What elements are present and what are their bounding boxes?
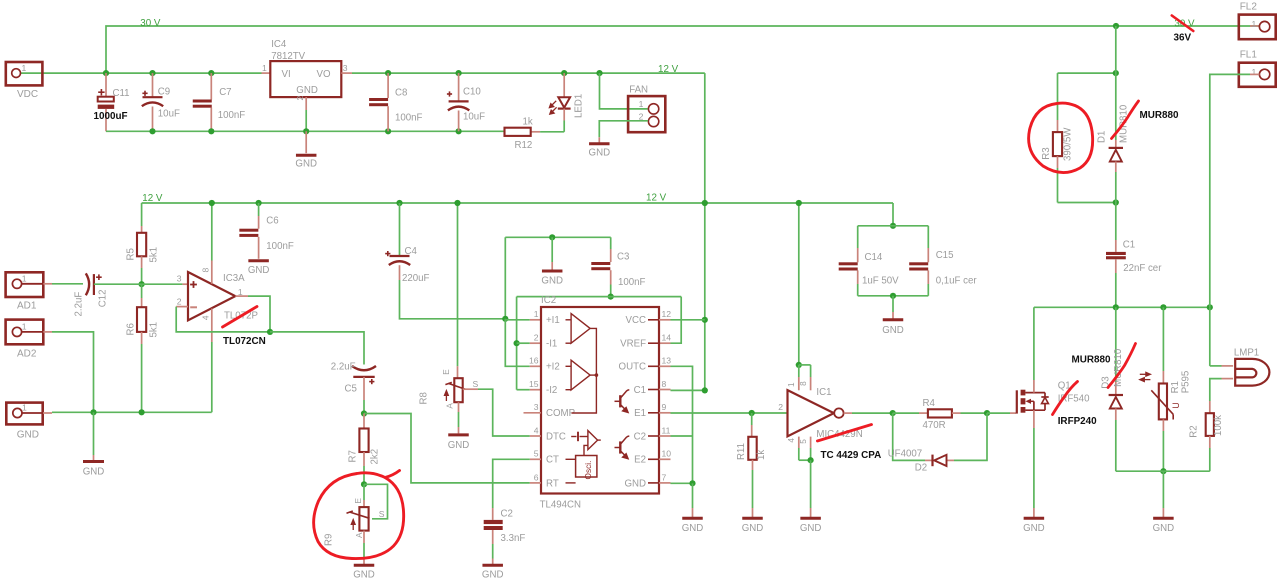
ground symbol pin7 <box>692 483 694 508</box>
connector GND (bottom left) <box>6 403 42 425</box>
IC2 internal oscillator box <box>576 456 597 478</box>
junction rail at C1/D3 <box>1113 304 1119 310</box>
svg-text:S: S <box>379 509 385 519</box>
IC1 triangle <box>788 390 834 436</box>
svg-text:FL2: FL2 <box>1240 2 1258 13</box>
IC2 internal comparator 1 <box>571 314 590 344</box>
svg-text:VO: VO <box>317 69 331 80</box>
svg-text:2.2uF: 2.2uF <box>331 362 356 373</box>
ground symbol R11 <box>752 508 754 517</box>
junction AD2/ground rail <box>90 409 96 415</box>
capacitor C3 100nF <box>610 237 612 249</box>
wire AD1 to C12 <box>22 283 44 285</box>
wire Q1 drain up to output rail <box>1033 380 1035 393</box>
ground symbol C6 <box>248 259 269 262</box>
svg-text:3.3nF: 3.3nF <box>501 533 526 544</box>
svg-text:D2: D2 <box>915 462 927 473</box>
svg-text:R11: R11 <box>736 443 747 460</box>
IC2 internal transistor 1 <box>615 390 630 413</box>
svg-text:GND: GND <box>17 429 39 440</box>
wire FL1 to output rail <box>1250 73 1259 75</box>
svg-text:8: 8 <box>799 381 808 386</box>
annotation strike MUR810 D3 <box>1108 344 1136 388</box>
svg-text:OUTC: OUTC <box>619 362 646 373</box>
pin 4 of IC3A (power) <box>211 309 213 343</box>
junction GND stem above IC2 <box>549 234 555 240</box>
connector FAN <box>628 96 665 132</box>
svg-text:E: E <box>442 369 451 375</box>
junction R4 left / D2 <box>890 410 896 416</box>
svg-text:3: 3 <box>534 402 539 412</box>
svg-text:GND: GND <box>682 523 704 534</box>
svg-text:3: 3 <box>177 274 182 284</box>
diode D1 MUR880 <box>1115 140 1117 148</box>
wire C4 bottom to +I1 node <box>400 280 506 319</box>
junction IC1 ground bridge <box>808 457 814 463</box>
svg-text:GND: GND <box>482 570 504 581</box>
junction R8 top (12V rail) <box>454 200 460 206</box>
svg-text:IC1: IC1 <box>816 387 831 398</box>
svg-text:C2: C2 <box>634 431 646 442</box>
junction 12V rail at pin8 <box>209 200 215 206</box>
wire R3/D1 top link <box>1058 72 1116 74</box>
wire AD2 down to ground rail <box>22 331 44 333</box>
pin 3 COMP stub <box>524 412 542 414</box>
capacitor C1 22nF cer <box>1115 203 1117 241</box>
svg-text:1k: 1k <box>523 117 533 128</box>
junction 12V rail at IC1 riser <box>796 200 802 206</box>
svg-text:1: 1 <box>22 274 27 284</box>
svg-text:C14: C14 <box>865 252 883 263</box>
svg-text:2k2: 2k2 <box>370 449 381 465</box>
svg-text:AD1: AD1 <box>17 301 37 312</box>
svg-text:1: 1 <box>787 382 796 387</box>
svg-text:E: E <box>354 498 363 504</box>
svg-text:LED1: LED1 <box>574 94 585 118</box>
svg-text:DTC: DTC <box>546 431 566 442</box>
wire bottom ground rail (right) <box>1116 470 1210 472</box>
junction C9 top <box>149 70 155 76</box>
junction C7 top <box>208 70 214 76</box>
svg-text:E1: E1 <box>634 408 646 419</box>
svg-text:4: 4 <box>787 438 796 443</box>
svg-text:1000uF: 1000uF <box>94 111 128 122</box>
svg-text:GND: GND <box>624 478 646 489</box>
lamp LMP1 <box>1210 365 1222 367</box>
svg-text:30 V: 30 V <box>140 18 161 29</box>
junction R1 bottom <box>1160 468 1166 474</box>
svg-text:R4: R4 <box>923 398 936 409</box>
svg-text:MUR880: MUR880 <box>1072 355 1111 366</box>
svg-text:C4: C4 <box>405 246 418 257</box>
capacitor C15 0.1uF cer <box>927 226 929 248</box>
svg-text:2: 2 <box>295 96 305 101</box>
svg-text:U: U <box>1171 402 1181 409</box>
wire 12V mid rail <box>142 202 893 204</box>
svg-text:1: 1 <box>534 309 539 319</box>
wire output to feedback node <box>235 295 248 297</box>
junction D1 top <box>1113 70 1119 76</box>
resistor R7 2k2 <box>363 414 365 429</box>
svg-text:+I1: +I1 <box>546 315 560 326</box>
svg-text:1: 1 <box>22 321 27 331</box>
wire IC1 pins 1/8 bridge <box>799 364 811 366</box>
wire junction to RT pin of IC2 <box>364 414 530 483</box>
ground symbol R8 <box>448 433 469 436</box>
pin 2 IC4 GND stub <box>305 97 307 110</box>
wire R8 bottom to ground <box>458 402 460 412</box>
svg-text:5k1: 5k1 <box>149 247 160 263</box>
connector FL2 <box>1250 25 1259 27</box>
capacitor C11 <box>105 73 107 97</box>
svg-text:1: 1 <box>1252 67 1257 77</box>
svg-text:FL1: FL1 <box>1240 50 1258 61</box>
svg-text:GND: GND <box>353 570 375 581</box>
annotation circle around R3 <box>1029 103 1093 172</box>
svg-text:GND: GND <box>541 276 563 287</box>
svg-text:MUR880: MUR880 <box>1140 110 1179 121</box>
svg-text:C6: C6 <box>266 215 278 226</box>
svg-text:2: 2 <box>778 402 783 412</box>
svg-text:R2: R2 <box>1189 425 1200 437</box>
transistor Q1 MOSFET <box>1017 390 1049 414</box>
ground symbol C14/C15 <box>892 296 894 312</box>
connector VDC <box>6 62 43 85</box>
wire C14/C15 box bottom <box>858 295 929 297</box>
wire IC1 output to R4 <box>844 412 852 414</box>
svg-text:2.2uF: 2.2uF <box>74 292 85 317</box>
resistor R4 470R <box>893 412 919 414</box>
svg-text:GND: GND <box>1153 523 1175 534</box>
svg-text:1k: 1k <box>756 450 767 460</box>
junction R6 bottom <box>139 409 145 415</box>
svg-text:9: 9 <box>662 402 667 412</box>
wire GND pin 7 <box>659 482 671 484</box>
resistor R12 1k <box>531 131 541 133</box>
wire VREF net <box>517 296 682 298</box>
wire GND bottom rail of input stage <box>106 130 505 132</box>
svg-text:5k1: 5k1 <box>149 322 160 338</box>
junction 30V rail / D1 branch <box>1113 23 1119 29</box>
annotation strike MIC4429N <box>817 425 871 442</box>
svg-text:12: 12 <box>662 309 672 319</box>
wire C1 pin 8 <box>659 389 671 391</box>
svg-text:12 V: 12 V <box>658 64 679 75</box>
pin 8 of IC3A (power) <box>211 203 213 261</box>
svg-text:10uF: 10uF <box>158 109 180 120</box>
svg-text:100nF: 100nF <box>395 113 423 124</box>
ground symbol IC1 <box>810 460 812 508</box>
pin 10 E2 stub <box>659 458 671 460</box>
ground symbol above IC2 <box>551 237 553 262</box>
svg-text:1: 1 <box>22 403 27 413</box>
wire -I1 pin 2 <box>517 342 530 344</box>
svg-text:GND: GND <box>296 85 318 96</box>
R1 adjust arrows <box>1140 372 1151 381</box>
resistor R2 100k <box>1209 401 1211 413</box>
svg-text:AD2: AD2 <box>17 348 37 359</box>
svg-text:LMP1: LMP1 <box>1234 348 1259 359</box>
svg-text:R7: R7 <box>348 450 359 462</box>
junction C6 top <box>256 200 262 206</box>
wire C14/C15 box top <box>892 203 894 226</box>
wire 30V rail <box>106 26 1259 73</box>
LED LED1 <box>561 70 567 76</box>
svg-text:100k: 100k <box>1213 415 1224 436</box>
wire 30V down to D1 <box>1115 26 1117 140</box>
wire ground rail <box>22 412 43 414</box>
wire VDC to input node <box>21 72 262 74</box>
svg-text:36V: 36V <box>1174 32 1192 43</box>
capacitor C9 <box>152 73 154 97</box>
wire +I1 node down to +I2 pin 16 <box>505 319 530 367</box>
wire FAN pin 2 to ground <box>599 121 648 138</box>
svg-text:VCC: VCC <box>626 315 646 326</box>
trimmer R9 <box>363 484 365 500</box>
junction FAN branch <box>596 70 602 76</box>
svg-text:4: 4 <box>201 315 211 320</box>
annotation strike 30V <box>1172 16 1194 32</box>
capacitor C12 2.2uF <box>86 273 89 295</box>
connector AD2 <box>6 320 44 345</box>
svg-text:RT: RT <box>546 478 559 489</box>
junction riser at VCC <box>702 317 708 323</box>
svg-text:E2: E2 <box>634 455 646 466</box>
junction D1 bottom <box>1113 199 1119 205</box>
svg-text:C10: C10 <box>463 87 481 98</box>
junction C8 top <box>385 70 391 76</box>
svg-text:11: 11 <box>662 425 671 435</box>
wire C2 pin 11 to GND net <box>659 435 671 437</box>
op-amp IC3A <box>188 272 235 320</box>
svg-text:A: A <box>355 532 364 538</box>
svg-text:8: 8 <box>662 379 667 389</box>
svg-text:1: 1 <box>639 99 644 109</box>
junction +I1 node <box>502 316 508 322</box>
svg-text:7812TV: 7812TV <box>271 51 305 62</box>
svg-text:Osci.: Osci. <box>583 461 593 480</box>
wire R8 wiper to DTC <box>463 388 478 390</box>
svg-text:R12: R12 <box>515 140 533 151</box>
svg-text:R9: R9 <box>324 534 335 546</box>
wire IC1 pins 4/5 bridge to ground <box>798 437 800 448</box>
svg-text:8: 8 <box>201 268 211 273</box>
svg-text:10uF: 10uF <box>463 112 485 123</box>
svg-text:GND: GND <box>295 159 317 170</box>
capacitor C8 <box>387 73 389 98</box>
svg-text:12 V: 12 V <box>142 193 163 204</box>
capacitor C2 3.3nF <box>492 508 494 520</box>
wire C12 to +input junction <box>94 283 142 285</box>
wire FAN pin 1 <box>600 73 648 109</box>
resistor R3 390/5W <box>1057 73 1059 120</box>
junction C4 top <box>396 200 402 206</box>
svg-text:COMP: COMP <box>546 408 575 419</box>
svg-text:C15: C15 <box>936 250 954 261</box>
IC2 internal comparator output wire <box>572 328 597 413</box>
svg-text:15: 15 <box>529 379 539 389</box>
wire OUTC pin 13 down to GND net <box>659 365 671 367</box>
svg-text:GND: GND <box>1023 523 1045 534</box>
svg-text:VI: VI <box>282 69 291 80</box>
wire GND rail above IC2 <box>505 236 610 238</box>
wire output rail <box>1034 306 1210 308</box>
IC2 internal comparator 2 <box>571 360 590 390</box>
connector FL1 <box>1239 63 1276 87</box>
svg-text:100nF: 100nF <box>266 241 294 252</box>
wire 12V riser to VCC and C1 <box>704 73 706 390</box>
svg-text:IC4: IC4 <box>271 39 287 50</box>
resistor R5 5k1 <box>137 233 146 256</box>
svg-text:C1: C1 <box>634 385 646 396</box>
svg-text:16: 16 <box>529 356 539 366</box>
svg-text:C2: C2 <box>501 509 513 520</box>
wire ground rail corner to opamp pin4 <box>210 411 213 413</box>
wire Q1 source to ground <box>1033 410 1035 428</box>
ground symbol C2 <box>492 559 494 565</box>
capacitor C4 220uF <box>399 203 401 256</box>
junction riser at pin8 <box>702 387 708 393</box>
wire 12V from regulator <box>341 72 352 74</box>
svg-text:D1: D1 <box>1097 131 1108 143</box>
junction rail at lamp column <box>1207 304 1213 310</box>
minus symbol <box>190 306 197 308</box>
IC2 internal DTC symbol <box>577 432 579 442</box>
junction input node C11 <box>103 70 109 76</box>
svg-text:100nF: 100nF <box>218 110 246 121</box>
svg-text:12 V: 12 V <box>646 193 667 204</box>
ground symbol IC4 <box>305 131 307 153</box>
junction IC1 power bridge <box>796 362 802 368</box>
junction C11 bottom <box>149 128 155 134</box>
svg-text:UF4007: UF4007 <box>888 448 922 459</box>
svg-text:C11: C11 <box>113 88 130 99</box>
junction feedback node <box>267 329 273 335</box>
svg-text:IC3A: IC3A <box>223 273 245 284</box>
junction C10 top <box>456 70 462 76</box>
svg-text:5: 5 <box>534 449 539 459</box>
svg-text:14: 14 <box>662 333 672 343</box>
svg-text:C8: C8 <box>395 88 407 99</box>
wire lamp to R2 <box>1210 379 1222 401</box>
pin 4 DTC stub <box>530 435 541 437</box>
junction IC4 GND <box>303 128 309 134</box>
svg-text:2: 2 <box>534 333 539 343</box>
junction C7 bottom <box>208 128 214 134</box>
svg-text:6: 6 <box>534 472 539 482</box>
svg-text:4: 4 <box>534 425 539 435</box>
svg-text:C9: C9 <box>158 87 170 98</box>
resistor R11 1k <box>751 413 753 425</box>
svg-text:R8: R8 <box>419 392 430 404</box>
svg-text:1: 1 <box>1252 19 1257 29</box>
svg-text:GND: GND <box>448 440 470 451</box>
svg-text:13: 13 <box>662 356 672 366</box>
svg-text:C5: C5 <box>345 384 357 395</box>
wire feedback node to C5 <box>270 332 364 365</box>
svg-text:-I2: -I2 <box>546 385 557 396</box>
wire wiper loop R9 <box>364 484 388 519</box>
plus symbol <box>190 284 197 286</box>
wire +I1 node to pin 1 <box>505 319 530 321</box>
svg-text:GND: GND <box>83 467 105 478</box>
junction R5/R6/input <box>139 281 145 287</box>
wire D2 loop <box>893 413 925 460</box>
svg-text:1: 1 <box>22 63 27 73</box>
svg-text:GND: GND <box>800 523 822 534</box>
voltage regulator IC4 7812TV <box>270 61 341 97</box>
svg-text:1uF 50V: 1uF 50V <box>862 276 899 287</box>
capacitor C10 <box>458 73 460 101</box>
junction C3 bottom / VREF net <box>608 294 614 300</box>
svg-text:0,1uF cer: 0,1uF cer <box>936 276 978 287</box>
wire rail down to R5 <box>141 203 143 226</box>
junction C14/C15 bottom <box>890 293 896 299</box>
ground symbol left <box>93 412 95 455</box>
gate driver IC1 <box>798 203 800 365</box>
svg-text:FAN: FAN <box>629 85 648 96</box>
wire to IC4 pin 1 <box>262 72 271 74</box>
svg-text:1: 1 <box>262 63 267 73</box>
wire -I2 pin 15 <box>517 389 530 391</box>
ground symbol R9 <box>363 559 365 565</box>
diode D3 MUR880 <box>1115 307 1117 382</box>
wire GND rail drop to +I1 <box>504 237 506 318</box>
svg-text:470R: 470R <box>923 420 946 431</box>
LED1 arrows <box>549 101 556 114</box>
svg-text:GND: GND <box>248 265 270 276</box>
wire feedback to pin 2 <box>176 306 188 308</box>
junction rail at R1 <box>1160 304 1166 310</box>
wire VREF drop to -I1/-I2 <box>516 297 518 390</box>
junction C10 bottom <box>456 128 462 134</box>
annotation circle around R9 <box>314 471 404 559</box>
svg-text:R5: R5 <box>126 248 137 260</box>
wire R3 bottom link <box>1058 202 1116 204</box>
diode D2 UF4007 <box>931 455 933 467</box>
junction -I1 <box>514 340 520 346</box>
annotation strike MUR810 D1 <box>1112 101 1139 139</box>
svg-text:-I1: -I1 <box>546 339 557 350</box>
svg-text:+I2: +I2 <box>546 362 560 373</box>
ground symbol FAN <box>598 137 600 143</box>
wire E1 pin 9 to driver input <box>659 412 671 414</box>
svg-text:390/5W: 390/5W <box>1063 127 1074 161</box>
svg-text:10: 10 <box>662 449 672 459</box>
wire VREF to pin 14 <box>671 297 682 344</box>
resistor R6 5k1 <box>141 284 143 298</box>
capacitor C7 <box>210 73 212 99</box>
svg-text:S: S <box>473 379 479 389</box>
junction R7/R9 wiper <box>361 481 367 487</box>
svg-text:IC2: IC2 <box>541 295 556 306</box>
svg-text:GND: GND <box>742 523 764 534</box>
junction riser at 12V rail <box>702 200 708 206</box>
junction C14/C15 top <box>890 223 896 229</box>
junction R11 top <box>749 410 755 416</box>
trimmer R8 <box>457 203 459 366</box>
IC2 internal transistor 2 <box>615 436 630 459</box>
svg-text:5: 5 <box>799 439 808 444</box>
annotation strike TL072P <box>223 307 258 328</box>
svg-text:7: 7 <box>662 472 667 482</box>
IC IC2 TL494CN <box>541 307 659 494</box>
svg-text:TC 4429 CPA: TC 4429 CPA <box>821 450 882 461</box>
annotation strike IRF540 <box>1053 382 1078 415</box>
capacitor C14 1uF 50V <box>857 226 859 248</box>
svg-text:TL494CN: TL494CN <box>540 500 581 511</box>
wire CT to C2 <box>493 459 530 508</box>
